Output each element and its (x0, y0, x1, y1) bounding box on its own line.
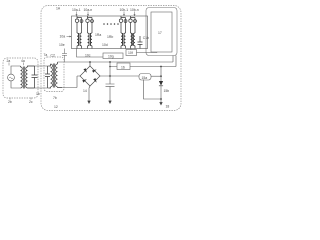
svg-text:1b: 1b (36, 92, 40, 96)
svg-text:15b: 15b (164, 89, 170, 93)
svg-text:16: 16 (121, 65, 125, 69)
svg-text:2b: 2b (8, 100, 12, 104)
svg-text:7b: 7b (53, 96, 57, 100)
svg-text:4a: 4a (21, 59, 25, 63)
svg-text:2a: 2a (7, 59, 11, 63)
svg-text:10f: 10f (128, 51, 133, 55)
svg-text:C2: C2 (51, 54, 55, 58)
svg-text:10b-n: 10b-n (130, 8, 139, 12)
svg-text:18: 18 (166, 105, 170, 109)
svg-text:10a: 10a (60, 35, 66, 39)
svg-text:10d: 10d (102, 43, 108, 47)
svg-text:10a-1: 10a-1 (72, 8, 81, 12)
svg-text:2c: 2c (29, 100, 33, 104)
svg-text:10b-1: 10b-1 (120, 8, 129, 12)
svg-text:1A: 1A (56, 7, 61, 11)
svg-text:12: 12 (54, 105, 58, 109)
svg-text:10a-n: 10a-n (84, 8, 93, 12)
svg-text:15a: 15a (142, 76, 148, 80)
svg-text:10e: 10e (59, 43, 65, 47)
svg-text:7a: 7a (44, 53, 48, 57)
svg-text:10c: 10c (85, 54, 91, 58)
svg-text:1Rb: 1Rb (107, 35, 113, 39)
svg-text:14: 14 (83, 89, 87, 93)
svg-text:17: 17 (158, 31, 162, 35)
svg-text:C1b: C1b (143, 36, 149, 40)
svg-text:1Ra: 1Ra (95, 33, 101, 37)
svg-text:10g: 10g (108, 55, 114, 59)
